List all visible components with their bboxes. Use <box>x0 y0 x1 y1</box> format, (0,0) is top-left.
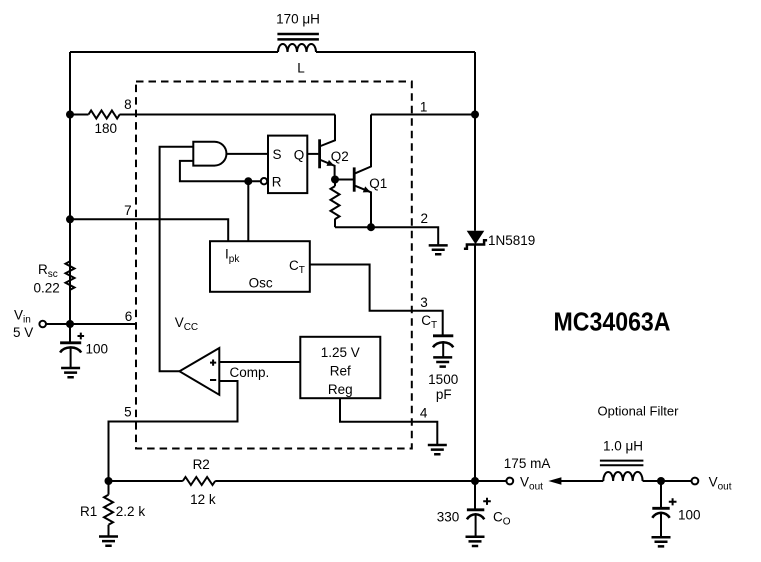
svg-text:330: 330 <box>437 510 460 525</box>
svg-text:12 k: 12 k <box>190 492 216 507</box>
svg-text:Osc: Osc <box>249 275 273 290</box>
svg-text:1.0 μH: 1.0 μH <box>603 439 643 454</box>
comparator <box>180 348 270 395</box>
wire AND output to S <box>227 153 269 155</box>
svg-text:180: 180 <box>95 121 118 136</box>
svg-text:6: 6 <box>125 309 133 324</box>
svg-text:5 V: 5 V <box>13 325 33 340</box>
wire pin 1 <box>371 100 475 115</box>
resistor 180 <box>89 111 120 137</box>
AND gate U <box>193 142 226 166</box>
inductor 1.0uH <box>600 439 644 482</box>
svg-text:MC34063A: MC34063A <box>554 307 671 337</box>
resistor Q2 emitter <box>331 180 340 228</box>
node Q1 emitter <box>367 223 375 231</box>
wire pin 6 <box>70 309 137 324</box>
ground pin 2 <box>429 245 448 254</box>
Ref Reg box <box>300 337 380 398</box>
svg-text:2: 2 <box>420 211 428 226</box>
latch S-R box <box>268 136 307 194</box>
resistor Rsc 0.22 <box>34 261 75 295</box>
ground pin 4 <box>428 445 447 454</box>
svg-text:R: R <box>272 175 282 190</box>
node Vin junction <box>66 320 74 328</box>
wire filter rail <box>560 480 692 482</box>
terminal Vout filter <box>692 475 732 493</box>
capacitor 100 input <box>60 324 108 368</box>
svg-text:4: 4 <box>420 406 428 421</box>
svg-text:Ref: Ref <box>330 364 351 379</box>
svg-text:5: 5 <box>124 405 132 420</box>
diode 1N5819 <box>464 231 535 249</box>
ground R1 <box>99 537 118 546</box>
svg-text:7: 7 <box>124 203 132 218</box>
svg-text:100: 100 <box>678 508 701 523</box>
arrow output filter <box>548 477 561 485</box>
svg-text:2.2 k: 2.2 k <box>116 504 146 519</box>
svg-text:Q1: Q1 <box>369 176 387 191</box>
transistor Q2 <box>320 115 349 180</box>
resistor R2 12k <box>183 457 216 507</box>
inductor L 170uH <box>276 11 320 75</box>
terminal Vout main <box>504 456 551 493</box>
wire Ref Reg to pin 4 ground <box>340 398 437 445</box>
node R junction <box>244 177 252 185</box>
node pin1 right rail <box>471 111 479 119</box>
capacitor CT 1500pF <box>428 336 458 402</box>
svg-text:pF: pF <box>436 387 452 402</box>
svg-text:S: S <box>273 147 282 162</box>
node pin7 junction <box>66 215 74 223</box>
capacitor CO 330 <box>437 481 511 537</box>
node pin8 junction <box>66 111 74 119</box>
svg-text:R2: R2 <box>193 457 210 472</box>
svg-text:1.25 V: 1.25 V <box>321 345 360 360</box>
transistor Q1 <box>354 115 387 228</box>
capacitor 100 filter <box>652 481 700 537</box>
wire comparator minus to pin 5 <box>109 381 238 481</box>
wire emitter rail to pin 2 <box>335 211 438 245</box>
node R1 junction <box>105 477 113 485</box>
wire comparator plus input <box>219 361 300 363</box>
wire R junction to Osc <box>247 181 249 241</box>
node Q2 emitter <box>331 176 339 184</box>
node output junction <box>471 477 479 485</box>
ground filter cap <box>652 537 671 546</box>
svg-text:1N5819: 1N5819 <box>488 233 535 248</box>
svg-text:L: L <box>297 61 305 76</box>
terminal Vin <box>13 308 70 341</box>
svg-text:Comp.: Comp. <box>230 365 270 380</box>
svg-text:Q2: Q2 <box>331 149 349 164</box>
wire Q1 base <box>335 179 353 181</box>
wire AND input2 / R input <box>180 161 261 181</box>
svg-text:8: 8 <box>124 97 132 112</box>
svg-text:1: 1 <box>420 100 428 115</box>
wire left rail <box>69 52 71 324</box>
svg-text:0.22: 0.22 <box>34 281 60 296</box>
ground CT <box>433 357 452 366</box>
ground CO <box>466 537 485 546</box>
svg-text:1500: 1500 <box>428 372 458 387</box>
Osc box <box>210 241 310 292</box>
ground input cap <box>61 368 80 377</box>
svg-text:3: 3 <box>420 295 428 310</box>
svg-text:Optional Filter: Optional Filter <box>598 404 680 419</box>
wire CT to pin 3 <box>310 265 443 336</box>
wire right rail <box>474 52 476 481</box>
svg-text:170 μH: 170 μH <box>276 11 320 26</box>
wire pin 7 <box>70 203 228 241</box>
svg-text:100: 100 <box>86 342 109 357</box>
svg-text:Reg: Reg <box>328 382 353 397</box>
svg-text:175 mA: 175 mA <box>504 456 551 471</box>
inverter bubble R input <box>261 178 267 184</box>
wire bottom rail <box>109 480 507 482</box>
svg-text:R1: R1 <box>80 504 97 519</box>
wire top rail <box>70 51 475 53</box>
node filter junction <box>657 477 665 485</box>
resistor R1 2.2k <box>80 481 145 536</box>
wire AND input1 from comparator <box>160 147 194 371</box>
dashed IC boundary box <box>136 82 412 449</box>
wire Q output to Q2 base <box>307 153 318 155</box>
wire pin 8 <box>70 97 335 115</box>
svg-text:Q: Q <box>294 148 305 163</box>
